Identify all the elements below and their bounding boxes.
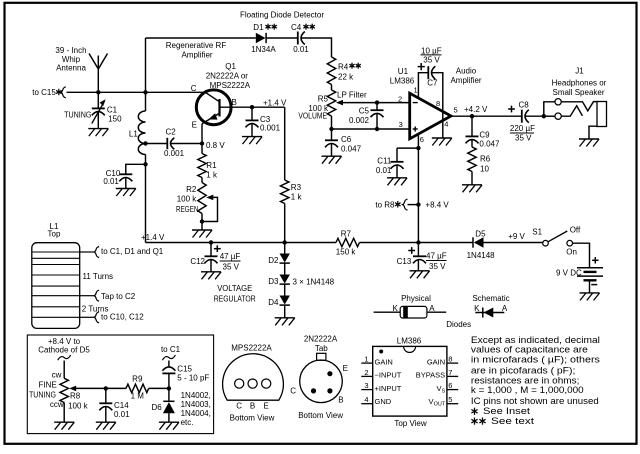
svg-text:BYPASS: BYPASS [416, 371, 445, 380]
svg-text:2: 2 [364, 368, 368, 377]
capacitor C8 220uF [521, 110, 523, 123]
svg-text:C: C [191, 84, 197, 93]
svg-text:1N4003,: 1N4003, [181, 400, 211, 409]
capacitor C7 10uF [418, 73, 428, 99]
svg-text:C12: C12 [190, 257, 205, 266]
svg-text:E: E [264, 401, 269, 410]
svg-text:+INPUT: +INPUT [375, 384, 402, 393]
wire base to R3 corner [220, 106, 285, 108]
svg-text:100 k: 100 k [177, 195, 198, 204]
wire R4 to R5 [331, 85, 333, 91]
svg-text:D6: D6 [151, 403, 162, 412]
svg-text:values of capacitance are: values of capacitance are [471, 345, 588, 355]
potentiometer R8 100k FINE TUNING [60, 378, 68, 402]
ground under C11 [387, 177, 407, 179]
svg-text:150: 150 [108, 115, 122, 124]
resistor R9 1M [106, 387, 126, 389]
capacitor C11 0.01 [396, 148, 398, 162]
node L1 tap to C2 [143, 141, 147, 145]
note See text [474, 418, 476, 425]
svg-text:150 k: 150 k [336, 248, 357, 257]
node pin 6 junction [416, 146, 420, 150]
svg-text:0.001: 0.001 [164, 149, 185, 158]
svg-text:to C1: to C1 [161, 345, 181, 354]
wire jack tip contact [561, 102, 597, 111]
ground at pin 4 [432, 137, 452, 139]
svg-text:5: 5 [454, 105, 458, 114]
svg-text:GND: GND [375, 397, 392, 406]
svg-text:D3: D3 [268, 277, 279, 286]
capacitor C10 0.01 [126, 164, 146, 174]
svg-text:K: K [392, 304, 398, 313]
capacitor C15 5-10pF [168, 361, 170, 368]
svg-text:Except as indicated, decimal: Except as indicated, decimal [471, 335, 600, 345]
note See Inset [474, 408, 476, 415]
svg-text:A: A [429, 304, 435, 313]
svg-text:R5: R5 [318, 94, 329, 103]
svg-text:C7: C7 [427, 78, 438, 87]
svg-text:R2: R2 [186, 185, 197, 194]
node D2 string [283, 240, 287, 244]
svg-text:Top View: Top View [394, 419, 427, 428]
node C5 top [375, 100, 379, 104]
svg-text:35 V: 35 V [429, 262, 446, 271]
svg-text:1N4002,: 1N4002, [181, 391, 211, 400]
wire C8 to jack [525, 115, 544, 117]
svg-text:D5: D5 [475, 229, 486, 238]
svg-text:Top: Top [48, 230, 61, 239]
svg-text:A: A [502, 304, 508, 313]
diode D5 1N4148 [472, 237, 474, 247]
svg-text:R3: R3 [291, 183, 302, 192]
svg-text:Antenna: Antenna [56, 64, 86, 73]
svg-text:E: E [192, 121, 197, 130]
node antenna junction [96, 90, 100, 94]
wire antenna feed [61, 87, 66, 98]
ground under D4 [275, 317, 295, 319]
resistor R4 22k [327, 57, 335, 85]
antenna 39-inch whip [97, 56, 99, 93]
ground under C13 [410, 270, 430, 272]
svg-text:Cathode of D5: Cathode of D5 [38, 346, 90, 355]
ground under D6 [159, 421, 179, 423]
svg-text:to C10, C12: to C10, C12 [101, 313, 144, 322]
resistor R1 1k [198, 154, 206, 178]
wiper of R8 [76, 387, 106, 389]
svg-text:C15: C15 [177, 365, 192, 374]
svg-text:5 - 10 pF: 5 - 10 pF [177, 373, 209, 382]
svg-text:5: 5 [448, 395, 452, 404]
svg-text:B: B [338, 396, 343, 405]
wire D5 to S1 [484, 242, 543, 244]
svg-text:C: C [236, 401, 242, 410]
svg-text:0.01: 0.01 [376, 166, 392, 175]
svg-text:1N4004,: 1N4004, [181, 409, 211, 418]
svg-text:Off: Off [570, 226, 581, 235]
svg-text:Bottom View: Bottom View [298, 411, 343, 420]
node jack [542, 114, 546, 118]
wire R8 tap [408, 204, 419, 206]
svg-text:2N2222A: 2N2222A [304, 335, 338, 344]
capacitor C2 0.001 [146, 143, 168, 145]
svg-text:MPS2222A: MPS2222A [210, 81, 251, 90]
svg-text:35 V: 35 V [223, 262, 240, 271]
node base C3 [250, 105, 254, 109]
switch S1 [543, 240, 549, 246]
svg-text:0.047: 0.047 [341, 145, 362, 154]
node emitter junction [200, 141, 204, 145]
svg-text:REGEN: REGEN [176, 205, 199, 214]
svg-text:Schematic: Schematic [472, 294, 509, 303]
svg-text:+1.4 V: +1.4 V [141, 233, 165, 242]
node C15 D6 [167, 386, 171, 390]
wire tap to C10 C12 [80, 316, 94, 318]
svg-text:S1: S1 [532, 228, 542, 237]
svg-text:7: 7 [448, 368, 452, 377]
svg-text:Amplifier: Amplifier [450, 76, 481, 85]
svg-text:GAIN: GAIN [375, 357, 393, 366]
svg-text:1 k: 1 k [206, 170, 218, 179]
svg-text:+8.4 V: +8.4 V [425, 201, 449, 210]
svg-text:R4: R4 [338, 62, 349, 71]
node output [470, 114, 474, 118]
svg-text:Headphones or: Headphones or [552, 79, 607, 88]
svg-text:VOLUME: VOLUME [298, 112, 327, 121]
wire emitter down [201, 124, 203, 144]
svg-text:6: 6 [420, 135, 424, 144]
svg-text:Floating Diode Detector: Floating Diode Detector [240, 11, 324, 20]
svg-text:+4.2 V: +4.2 V [464, 105, 488, 114]
wire to C11 [397, 147, 418, 149]
svg-text:LM386: LM386 [390, 77, 415, 86]
wire D1 to C4 [266, 37, 298, 39]
svg-text:2N2222A or: 2N2222A or [206, 72, 249, 81]
svg-text:11 Turns: 11 Turns [83, 272, 114, 281]
svg-text:R7: R7 [341, 229, 352, 238]
svg-text:10: 10 [480, 164, 489, 173]
svg-text:0.01: 0.01 [103, 177, 119, 186]
svg-text:47 µF: 47 µF [220, 252, 241, 261]
diode D2 [284, 243, 286, 254]
svg-text:10 µF: 10 µF [421, 46, 442, 55]
svg-text:220 µF: 220 µF [510, 124, 535, 133]
svg-text:etc.: etc. [181, 418, 194, 427]
svg-text:C3: C3 [260, 115, 271, 124]
transistor Q1 2N2222A [196, 90, 231, 125]
capacitor C9 0.047 [471, 116, 473, 136]
resistor R6 10 [468, 147, 476, 172]
svg-text:Audio: Audio [456, 67, 477, 76]
svg-text:0.01: 0.01 [114, 410, 130, 419]
svg-text:C8: C8 [519, 101, 530, 110]
wire R7 to D5 [360, 242, 474, 244]
op-amp U1 LM386 [410, 93, 451, 139]
diode D1 1N34A [256, 33, 266, 43]
svg-text:See text: See text [491, 416, 535, 426]
svg-text:C14: C14 [114, 401, 129, 410]
svg-text:VOLTAGE: VOLTAGE [217, 284, 252, 293]
svg-text:Regenerative RF: Regenerative RF [166, 41, 227, 50]
svg-text:U1: U1 [398, 67, 409, 76]
svg-text:in microfarads ( µF); others: in microfarads ( µF); others [471, 354, 601, 364]
ground under R2 [192, 229, 212, 231]
svg-text:Tab: Tab [315, 344, 328, 353]
capacitor C13 47uF [417, 243, 419, 257]
ground under C14 [96, 421, 116, 423]
node R8 tap [416, 202, 420, 206]
resistor R3 1k [284, 107, 286, 180]
physical diode drawing [374, 311, 401, 313]
svg-text:LP Filter: LP Filter [337, 91, 367, 100]
svg-text:resistances are in ohms;: resistances are in ohms; [471, 375, 580, 385]
svg-text:3: 3 [364, 381, 368, 390]
ground under jack [579, 138, 599, 140]
wire left vertical from top rail [145, 38, 147, 111]
wire +8.4V vertical [417, 148, 419, 242]
potentiometer R5 100k VOLUME [327, 90, 335, 116]
potentiometer R2 100k REGEN [201, 178, 203, 183]
svg-text:REGULATOR: REGULATOR [214, 295, 256, 304]
svg-text:0.002: 0.002 [349, 116, 370, 125]
diode D3 [284, 264, 286, 275]
wire top rail [146, 37, 256, 39]
svg-text:47 µF: 47 µF [426, 252, 447, 261]
svg-text:Bottom View: Bottom View [230, 414, 275, 423]
capacitor C14 0.01 [105, 388, 107, 403]
svg-text:to C1, D1 and Q1: to C1, D1 and Q1 [101, 247, 164, 256]
ground under R8 [54, 421, 74, 423]
svg-text:+9 V: +9 V [508, 232, 525, 241]
svg-text:2: 2 [398, 95, 402, 104]
node collector wire junction [143, 90, 147, 94]
node R5 bottom [329, 127, 333, 131]
svg-text:IC pins not shown are unused: IC pins not shown are unused [471, 396, 599, 406]
svg-text:Physical: Physical [401, 294, 431, 303]
svg-text:D1: D1 [253, 23, 264, 32]
svg-text:3 × 1N4148: 3 × 1N4148 [293, 277, 335, 286]
capacitor C3 0.001 [251, 107, 253, 120]
ground under C10 [116, 188, 136, 190]
svg-text:C4: C4 [291, 23, 302, 32]
svg-text:MPS2222A: MPS2222A [231, 344, 272, 353]
svg-text:−INPUT: −INPUT [375, 371, 402, 380]
node L1 bottom to C10 [143, 162, 147, 166]
capacitor C4 0.01 [297, 32, 299, 45]
svg-text:4: 4 [444, 119, 448, 128]
ground under battery [580, 292, 600, 294]
svg-text:39 - Inch: 39 - Inch [55, 46, 86, 55]
svg-text:1 M: 1 M [131, 392, 145, 401]
svg-text:1 k: 1 k [291, 192, 303, 201]
wire tap to C2 [80, 295, 94, 297]
diode D6 [168, 388, 170, 401]
inductor L1 [138, 111, 145, 155]
svg-text:to C15: to C15 [32, 88, 56, 97]
svg-text:to R8: to R8 [375, 200, 395, 209]
svg-text:9 V DC: 9 V DC [556, 269, 582, 278]
svg-text:TUNING: TUNING [64, 110, 91, 119]
svg-text:4: 4 [364, 395, 368, 404]
svg-text:R1: R1 [206, 161, 217, 170]
svg-text:cw: cw [52, 370, 62, 379]
svg-text:L1: L1 [129, 130, 138, 139]
svg-text:C6: C6 [341, 135, 352, 144]
inset box fine tuning [27, 335, 213, 434]
svg-text:are in picofarads ( pF);: are in picofarads ( pF); [471, 366, 576, 376]
svg-text:B: B [232, 98, 237, 107]
wire output pin 5 [451, 115, 522, 117]
svg-text:1N4148: 1N4148 [467, 251, 496, 260]
svg-text:8: 8 [448, 355, 452, 364]
wiper of R5 to pin 2 [343, 102, 410, 104]
svg-text:k = 1,000 , M = 1,000,000: k = 1,000 , M = 1,000,000 [471, 385, 584, 395]
svg-text:R8: R8 [70, 391, 81, 400]
svg-text:On: On [566, 248, 577, 257]
svg-text:FINE: FINE [38, 381, 56, 390]
svg-text:6: 6 [448, 381, 452, 390]
jack body [597, 102, 607, 127]
svg-text:Q1: Q1 [225, 62, 236, 71]
svg-text:+1.4 V: +1.4 V [263, 99, 287, 108]
wire +1.4V rail [146, 242, 337, 244]
svg-text:22 k: 22 k [338, 73, 354, 82]
svg-text:35 V: 35 V [515, 133, 532, 142]
wire R5 bottom to pin 3 [332, 128, 410, 130]
capacitor C1 variable 150 TUNING [97, 92, 99, 108]
schematic diode drawing [475, 312, 504, 314]
wire pin 6 down [417, 134, 419, 149]
diode D4 [284, 285, 286, 296]
node C12 [209, 240, 213, 244]
capacitor C5 0.002 [376, 103, 378, 111]
wire R2 wiper loop [202, 197, 218, 221]
svg-text:ccw: ccw [50, 400, 64, 409]
svg-text:See Inset: See Inset [483, 406, 531, 416]
svg-text:Small Speaker: Small Speaker [552, 88, 604, 97]
svg-text:C2: C2 [166, 128, 177, 137]
svg-text:0.047: 0.047 [479, 139, 500, 148]
svg-text:D4: D4 [268, 298, 279, 307]
svg-text:Diodes: Diodes [446, 320, 471, 329]
svg-text:D2: D2 [268, 256, 279, 265]
ground under C1 [88, 128, 108, 130]
node C13 [416, 240, 420, 244]
svg-text:1: 1 [364, 355, 368, 364]
svg-text:C9: C9 [479, 131, 490, 140]
svg-text:1: 1 [414, 86, 418, 95]
svg-text:3: 3 [399, 120, 403, 129]
svg-text:Tap to C2: Tap to C2 [101, 292, 136, 301]
wire C4 to R4 corner [301, 38, 332, 57]
svg-text:C13: C13 [397, 257, 412, 266]
wire jack ring contact [561, 106, 582, 116]
svg-text:E: E [343, 364, 348, 373]
svg-text:8: 8 [436, 99, 440, 108]
svg-text:Amplifier: Amplifier [181, 51, 212, 60]
svg-text:35 V: 35 V [423, 56, 440, 65]
svg-text:R9: R9 [132, 374, 143, 383]
svg-text:GAIN: GAIN [427, 357, 445, 366]
ground under C3 [242, 136, 262, 138]
svg-text:0.8 V: 0.8 V [206, 141, 225, 150]
wire tap to C1 [80, 251, 94, 253]
svg-text:LM386: LM386 [397, 337, 422, 346]
wire from +8.4V [58, 355, 71, 360]
svg-text:1N34A: 1N34A [251, 45, 276, 54]
svg-text:TUNING: TUNING [29, 390, 56, 399]
capacitor C6 0.047 [331, 129, 333, 140]
resistor R7 150k [336, 238, 360, 246]
ground under R6 [462, 184, 482, 186]
svg-text:+8.4 V to: +8.4 V to [48, 337, 81, 346]
wire jack sleeve to ground [589, 126, 597, 139]
svg-text:0.01: 0.01 [293, 45, 309, 54]
svg-text:0.001: 0.001 [260, 124, 281, 133]
svg-text:J1: J1 [575, 67, 584, 76]
node C5 bottom [375, 127, 379, 131]
svg-text:C5: C5 [359, 107, 370, 116]
svg-text:R6: R6 [480, 155, 491, 164]
svg-text:C: C [290, 386, 296, 395]
wire below L1 [145, 155, 147, 243]
svg-text:B: B [250, 401, 255, 410]
svg-text:C11: C11 [377, 156, 392, 165]
svg-text:K: K [474, 304, 480, 313]
node C14 [104, 386, 108, 390]
capacitor C12 47uF [210, 243, 212, 257]
ground under C12 [201, 271, 221, 273]
battery 9V DC [577, 267, 603, 269]
svg-text:100 k: 100 k [68, 401, 89, 410]
node R2 bottom [200, 219, 204, 223]
wire S1 to battery [573, 243, 590, 268]
ground under C6 [322, 155, 342, 157]
svg-text:C1: C1 [107, 105, 118, 114]
